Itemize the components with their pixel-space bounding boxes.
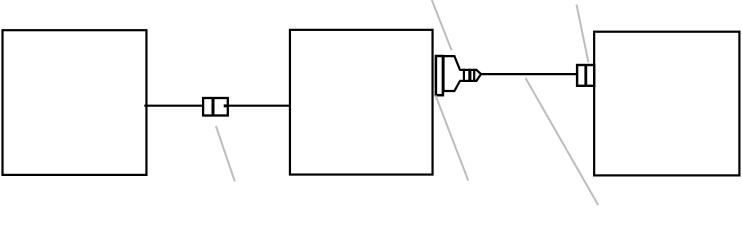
block box 1 (left device) [3,30,147,175]
connector C2 divider [584,64,587,87]
wire inline connector C1 to box2 [228,105,290,107]
plug P1 collar left edge [463,69,465,82]
inline connector C1 pin nub [224,104,228,107]
callout leader 3 (from cable wire) [526,78,599,205]
plug P1 neck and collar top [459,69,474,71]
plug P1 flange on box2 right edge [436,56,443,95]
inline connector C1 body [203,98,228,116]
plug P1 body left edge [443,56,445,91]
connector C2 body at box3 [577,65,594,86]
inline connector C1 divider [212,97,215,116]
callout leader 1 (to plug body) [432,0,452,50]
block box 3 (right device) [594,32,739,176]
callout leader 2 (to connector C2) [577,5,589,63]
plug P1 body bottom profile [443,81,460,91]
cable wire plug to connector C2 [481,73,577,75]
wire box1 to inline connector C1 [144,105,203,107]
plug P1 body top profile [443,56,460,70]
callout leader 4 (from plug flange) [436,96,469,181]
plug P1 neck and collar bottom [459,80,474,82]
plug P1 collar divider [468,69,471,82]
plug P1 tip [474,69,481,82]
block box 2 (middle device) [290,30,433,175]
callout leader 5 (from inline connector C1) [216,126,235,181]
